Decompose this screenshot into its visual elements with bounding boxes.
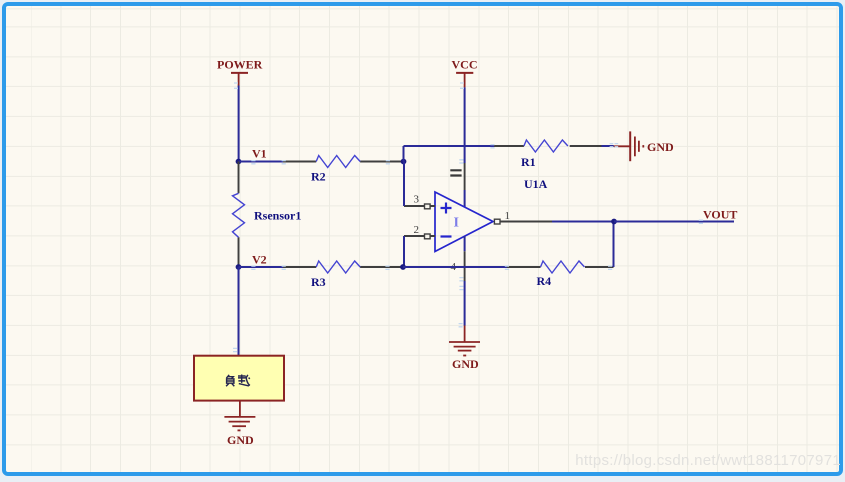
- wire pin3 stub from V1 junction: [403, 162, 405, 207]
- wire op-amp output: [552, 221, 614, 223]
- wire V1 rail left segment: [239, 161, 284, 163]
- svg-text:GND: GND: [452, 357, 479, 371]
- load label (CJK strokes): [226, 375, 250, 387]
- svg-text:POWER: POWER: [217, 58, 263, 72]
- wire POWER to V1: [238, 86, 240, 162]
- node V2 junction: [236, 264, 242, 270]
- resistor R1: [494, 140, 614, 169]
- pin 3 lead and box: [404, 205, 435, 207]
- power ground GND top right: [614, 131, 674, 161]
- svg-text:U1A: U1A: [524, 177, 548, 191]
- triangle body: [435, 192, 493, 252]
- svg-text:GND: GND: [227, 433, 254, 447]
- svg-text:VCC: VCC: [452, 58, 478, 72]
- svg-text:V2: V2: [252, 253, 267, 267]
- svg-text:2: 2: [414, 224, 420, 236]
- wire feedback rail to R1: [404, 145, 495, 147]
- pin 4 lead: [464, 236, 466, 251]
- svg-text:I: I: [454, 216, 459, 231]
- wire op-amp pin4 to ground: [464, 281, 466, 326]
- wire R4 up to output: [613, 222, 615, 268]
- plus mark: [441, 203, 452, 214]
- svg-text:R3: R3: [311, 275, 326, 289]
- wire V2 rail to R4: [403, 266, 507, 268]
- node at rail junction: [401, 159, 407, 165]
- wire load to ground stem: [239, 401, 241, 417]
- svg-text:R1: R1: [521, 155, 536, 169]
- resistor R3: [283, 261, 403, 289]
- wire V2 rail left segment: [239, 266, 284, 268]
- svg-text:3: 3: [414, 194, 420, 206]
- wire junction up to feedback rail: [403, 146, 405, 162]
- power port VCC: [452, 58, 478, 88]
- pin number 11: [450, 170, 461, 175]
- svg-text:R2: R2: [311, 170, 326, 184]
- op-amp U1A: [404, 163, 552, 281]
- svg-text:GND: GND: [647, 140, 674, 154]
- power ground GND below op-amp: [449, 326, 480, 372]
- node at V2 / op-amp junction: [400, 264, 406, 270]
- pin 2 lead and box: [404, 235, 435, 237]
- svg-text:VOUT: VOUT: [703, 208, 737, 222]
- resistor R2: [283, 156, 404, 184]
- node output junction: [611, 219, 617, 225]
- resistor R4: [507, 261, 614, 288]
- minus mark: [441, 235, 452, 237]
- power ground GND below load: [224, 417, 255, 447]
- wire VCC down to op-amp supply pin: [464, 87, 466, 163]
- node V1 junction: [236, 159, 242, 165]
- compile mask marks: [233, 83, 703, 352]
- wire pin2 stub from V2 junction: [403, 236, 405, 267]
- power port POWER: [217, 58, 263, 86]
- wire V2 down to load: [238, 267, 240, 356]
- svg-text:V1: V1: [252, 147, 267, 161]
- svg-text:1: 1: [505, 210, 511, 222]
- load box (component): [194, 356, 284, 401]
- wire VOUT: [614, 221, 734, 223]
- pin 11 lead: [464, 163, 466, 190]
- svg-text:Rsensor1: Rsensor1: [254, 209, 301, 223]
- resistor Rsensor1: [233, 162, 302, 268]
- pin 1 lead and box: [500, 221, 552, 223]
- svg-text:R4: R4: [537, 274, 552, 288]
